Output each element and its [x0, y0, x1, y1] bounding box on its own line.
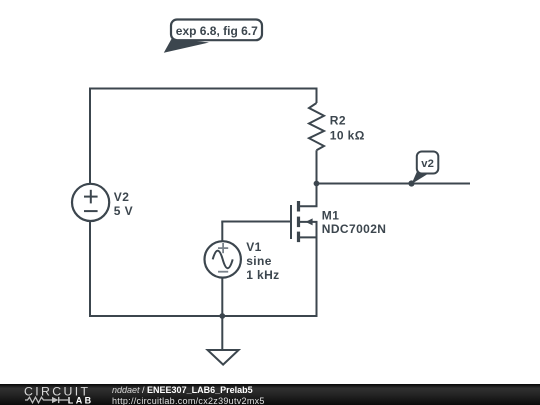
- sine wave: [213, 251, 233, 269]
- wire resistor top lead: [316, 88, 318, 104]
- node v2 flag: [408, 152, 438, 187]
- wire top rail: [89, 88, 317, 90]
- node ground junction dot: [219, 313, 225, 319]
- body arrow: [306, 218, 313, 225]
- footer bar: [0, 384, 540, 405]
- body stub: [300, 221, 318, 223]
- CircuitLab logo: [0, 384, 100, 405]
- drain stub: [300, 205, 318, 207]
- transistor M1 NDC7002N: [291, 201, 318, 242]
- source stub: [300, 236, 318, 238]
- svg-text:1 kHz: 1 kHz: [246, 268, 279, 282]
- svg-text:sine: sine: [246, 254, 272, 268]
- wire drain vertical: [316, 184, 318, 207]
- svg-text:v2: v2: [421, 158, 434, 170]
- svg-text:5 V: 5 V: [114, 204, 133, 218]
- wire ground lead: [221, 316, 223, 350]
- channel segment drain: [297, 201, 300, 212]
- gate bar: [290, 205, 292, 239]
- wire resistor bottom lead: [316, 150, 318, 183]
- logo diode: [52, 397, 59, 403]
- svg-text:NDC7002N: NDC7002N: [322, 222, 387, 236]
- footer line 2: [112, 396, 265, 405]
- wire V2 bottom lead: [89, 221, 91, 316]
- svg-text:M1: M1: [322, 208, 339, 222]
- wire V1 top lead: [221, 222, 223, 242]
- wire gate lead: [221, 221, 291, 223]
- voltage source V1 (sine): [205, 241, 241, 277]
- wire V1 bottom lead: [221, 278, 223, 316]
- resistor R2: [309, 103, 324, 150]
- ground: [208, 350, 239, 365]
- svg-text:V2: V2: [114, 190, 129, 204]
- wire source vertical: [316, 222, 318, 317]
- annotation bubble "exp 6.8, fig 6.7": [164, 20, 262, 53]
- wire output rail to v2: [317, 183, 471, 185]
- voltage source V2: [72, 184, 109, 221]
- node drain junction dot: [314, 181, 320, 187]
- svg-text:R2: R2: [330, 113, 346, 127]
- footer line 1: [112, 385, 253, 395]
- wire bottom rail: [89, 315, 317, 317]
- logo resistor squiggle: [25, 397, 52, 403]
- channel segment source: [297, 232, 300, 243]
- channel segment body: [297, 217, 300, 228]
- svg-text:exp 6.8, fig 6.7: exp 6.8, fig 6.7: [176, 24, 258, 38]
- svg-text:LAB: LAB: [68, 395, 94, 405]
- svg-text:10 kΩ: 10 kΩ: [330, 129, 365, 143]
- wire left vertical (V2 top to top rail): [89, 89, 91, 185]
- svg-text:V1: V1: [246, 240, 261, 254]
